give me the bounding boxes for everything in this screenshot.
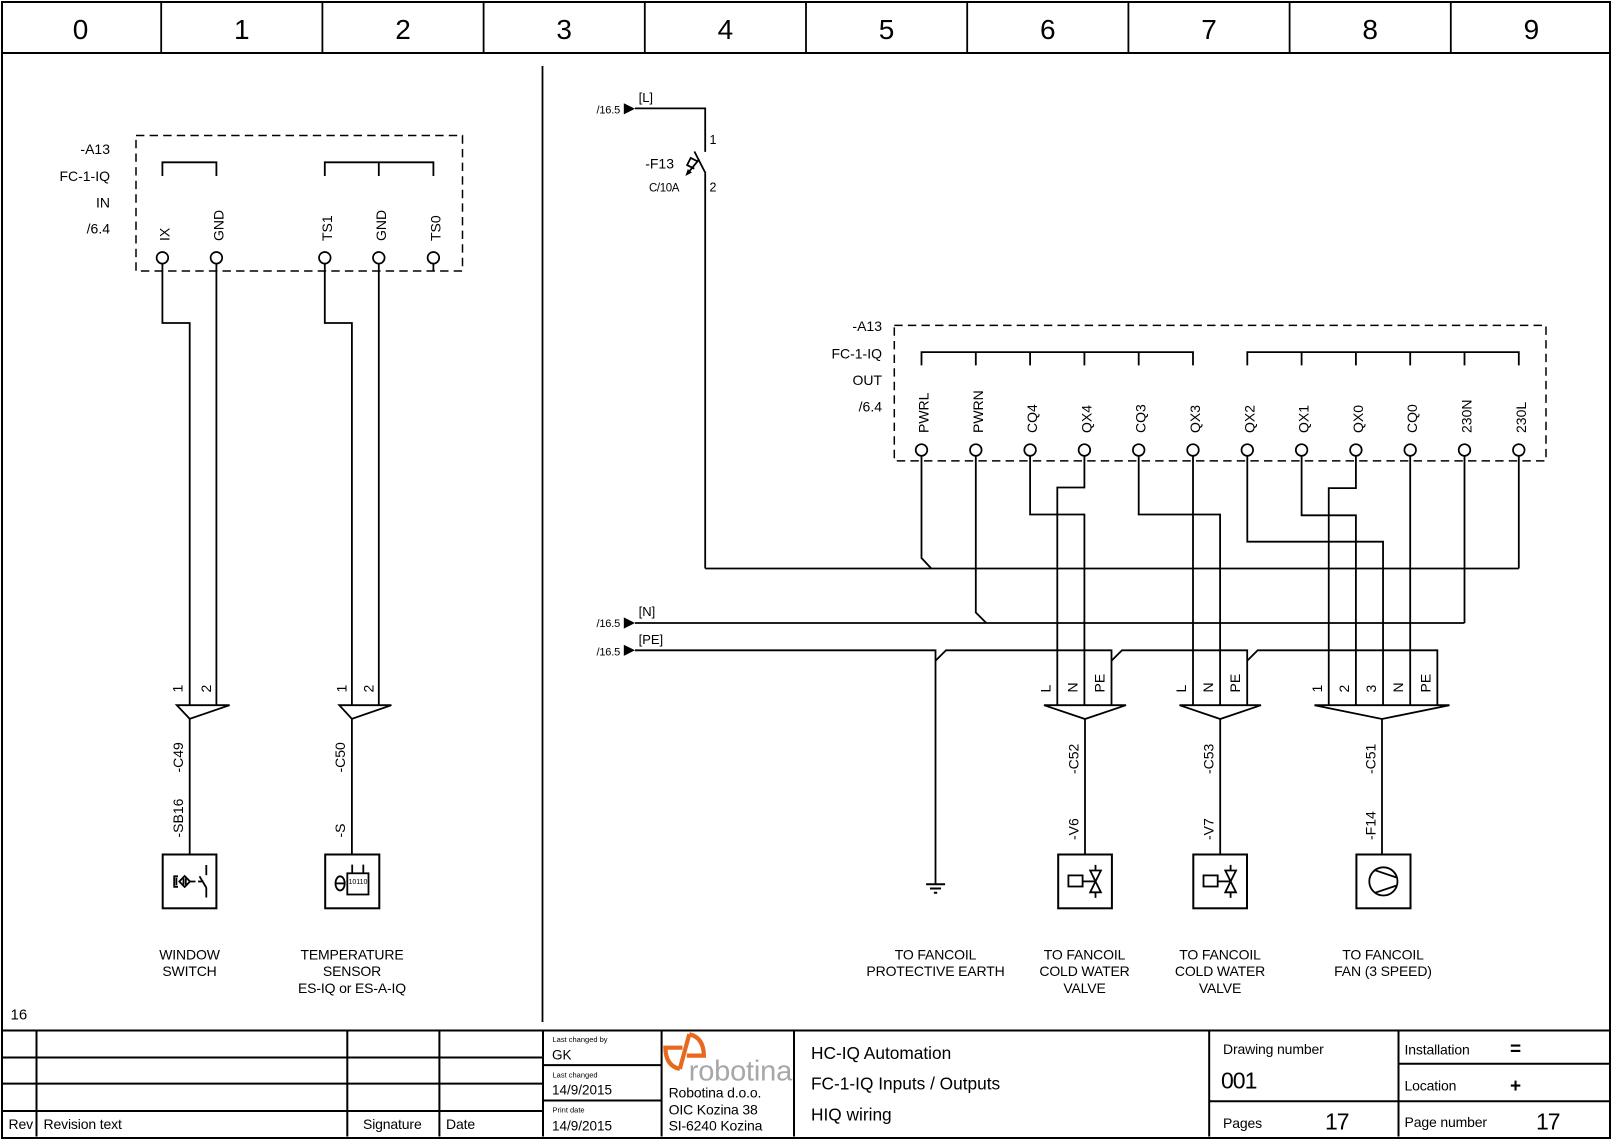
connector C53	[1173, 674, 1261, 774]
svg-text:1: 1	[333, 685, 349, 693]
wire GND to connector C50 pin 2	[378, 264, 380, 706]
terminal QX0	[1350, 405, 1366, 456]
svg-text:Robotina d.o.o.: Robotina d.o.o.	[669, 1085, 762, 1101]
wire QX0 to C51 pin 1	[1329, 456, 1356, 705]
caption cold water valve 2	[1175, 947, 1265, 996]
column ruler strip	[2, 2, 1610, 53]
caption protective earth	[866, 947, 1004, 980]
svg-text:PE: PE	[1417, 674, 1433, 693]
svg-text:TO FANCOIL: TO FANCOIL	[1179, 947, 1261, 963]
svg-text:230N: 230N	[1459, 400, 1475, 433]
svg-text:FC-1-IQ Inputs / Outputs: FC-1-IQ Inputs / Outputs	[811, 1074, 1001, 1094]
svg-text:[N]: [N]	[639, 604, 656, 619]
wire F13 pin 2 down to L net line	[704, 173, 706, 568]
caption fan	[1334, 947, 1432, 980]
svg-text:C/10A: C/10A	[649, 183, 680, 195]
svg-text:Pages: Pages	[1223, 1115, 1262, 1131]
svg-text:TO FANCOIL: TO FANCOIL	[1342, 947, 1424, 963]
svg-text:[PE]: [PE]	[639, 632, 664, 647]
svg-text:SWITCH: SWITCH	[162, 963, 216, 979]
wire IX to connector C49 pin 1	[162, 264, 189, 706]
svg-text:PWRL: PWRL	[916, 392, 932, 433]
svg-text:230L: 230L	[1513, 402, 1529, 433]
terminal QX3	[1187, 405, 1203, 456]
terminal CQ4	[1024, 404, 1040, 456]
svg-text:9: 9	[1524, 14, 1540, 45]
caption cold water valve 1	[1039, 947, 1129, 996]
connector C50	[332, 685, 391, 773]
wire CQ4 to C52 N	[1030, 456, 1084, 705]
net arrow [PE]	[597, 632, 664, 659]
terminal QX1	[1296, 405, 1312, 456]
svg-text:Date: Date	[446, 1116, 475, 1132]
connector C49	[170, 685, 230, 773]
svg-text:14/9/2015: 14/9/2015	[552, 1083, 612, 1098]
terminal GND (input 1)	[210, 210, 226, 264]
svg-text:CQ0: CQ0	[1404, 404, 1420, 433]
svg-text:WINDOW: WINDOW	[159, 947, 220, 963]
svg-text:QX2: QX2	[1241, 405, 1257, 433]
svg-text:VALVE: VALVE	[1063, 980, 1105, 996]
title text	[811, 1043, 1001, 1125]
svg-text:HIQ wiring: HIQ wiring	[811, 1105, 892, 1125]
net line PE with branch jogs	[635, 650, 936, 884]
svg-text:14/9/2015: 14/9/2015	[552, 1119, 612, 1134]
svg-text:CQ4: CQ4	[1024, 404, 1040, 433]
svg-text:/16.5: /16.5	[597, 105, 621, 117]
terminal GND (input 2)	[373, 210, 389, 264]
net arrow [N]	[597, 604, 656, 630]
svg-text:IN: IN	[96, 195, 110, 211]
svg-text:3: 3	[556, 14, 572, 45]
valve V7	[1193, 818, 1247, 908]
svg-text:17: 17	[1536, 1109, 1560, 1135]
svg-text:17: 17	[1325, 1109, 1349, 1135]
terminal CQ3	[1133, 404, 1149, 456]
terminal CQ0	[1404, 404, 1420, 456]
terminal TS1	[319, 215, 335, 263]
svg-text:N: N	[1064, 682, 1080, 692]
svg-text:PROTECTIVE EARTH: PROTECTIVE EARTH	[866, 963, 1004, 979]
svg-text:1: 1	[710, 133, 717, 147]
svg-text:TS0: TS0	[427, 215, 443, 241]
device block A13 IN (FC-1-IQ inputs)	[59, 136, 462, 272]
svg-text:-F14: -F14	[1363, 811, 1379, 840]
svg-text:Last changed: Last changed	[553, 1070, 598, 1079]
svg-text:1: 1	[1309, 685, 1325, 693]
bracket group TS1-GND-TS0	[325, 162, 434, 176]
terminal TS0	[427, 215, 443, 263]
svg-text:OUT: OUT	[852, 372, 882, 388]
svg-text:QX4: QX4	[1078, 405, 1094, 433]
svg-text:COLD WATER: COLD WATER	[1039, 963, 1129, 979]
svg-text:Location: Location	[1405, 1078, 1457, 1094]
terminal PWRL	[916, 392, 932, 455]
svg-text:Last changed by: Last changed by	[553, 1035, 608, 1044]
connector C52	[1037, 674, 1126, 774]
svg-text:OIC Kozina 38: OIC Kozina 38	[669, 1102, 758, 1118]
svg-text:0: 0	[73, 14, 89, 45]
svg-text:GND: GND	[373, 210, 389, 241]
window switch SB16	[163, 798, 217, 908]
svg-text:2: 2	[710, 181, 717, 195]
terminal QX4	[1078, 405, 1094, 456]
temperature sensor S	[325, 824, 379, 909]
wire QX4 to C52 L	[1057, 456, 1084, 705]
wire stub TS0	[432, 264, 434, 271]
robotina logo	[665, 1034, 793, 1133]
fan F14	[1356, 811, 1410, 908]
svg-text:PWRN: PWRN	[970, 390, 986, 433]
terminal QX2	[1241, 405, 1257, 456]
svg-text:Rev: Rev	[9, 1116, 34, 1132]
svg-text:Signature: Signature	[363, 1116, 422, 1132]
svg-text:GND: GND	[210, 210, 226, 241]
cable wire C53 to V7	[1219, 719, 1221, 855]
svg-text:Installation: Installation	[1405, 1042, 1470, 1058]
wire L net to breaker F13 pin 1	[635, 108, 705, 151]
svg-text:=: =	[1510, 1039, 1521, 1060]
installation / location / page number cells	[1405, 1039, 1560, 1135]
wire QX1 to C51 pin 2	[1302, 456, 1356, 705]
svg-text:FC-1-IQ: FC-1-IQ	[831, 346, 882, 362]
ground symbol (protective earth)	[926, 884, 945, 893]
svg-text:16: 16	[11, 1007, 28, 1024]
svg-text:COLD WATER: COLD WATER	[1175, 963, 1265, 979]
cable wire C49 to SB16	[189, 719, 191, 855]
svg-text:Drawing number: Drawing number	[1223, 1041, 1324, 1057]
svg-text:ES-IQ or ES-A-IQ: ES-IQ or ES-A-IQ	[298, 980, 406, 996]
svg-text:FC-1-IQ: FC-1-IQ	[59, 168, 110, 184]
svg-text:GK: GK	[552, 1048, 572, 1063]
title block	[2, 1031, 1610, 1137]
caption window switch	[159, 947, 220, 980]
svg-text:TEMPERATURE: TEMPERATURE	[300, 947, 403, 963]
svg-text:QX0: QX0	[1350, 405, 1366, 433]
svg-text:Print date: Print date	[553, 1106, 585, 1115]
svg-text:N: N	[1200, 682, 1216, 692]
svg-text:TO FANCOIL: TO FANCOIL	[895, 947, 977, 963]
bracket group PWRL..QX3	[922, 352, 1194, 365]
svg-text:5: 5	[879, 14, 895, 45]
svg-text:IX: IX	[156, 227, 172, 241]
svg-text:PE: PE	[1227, 674, 1243, 693]
connector C51	[1309, 674, 1450, 774]
svg-text:4: 4	[718, 14, 734, 45]
valve V6	[1058, 818, 1112, 908]
svg-text:/6.4: /6.4	[859, 399, 883, 415]
terminal PWRN	[970, 390, 986, 456]
svg-text:-V6: -V6	[1065, 818, 1081, 840]
svg-text:/16.5: /16.5	[597, 647, 621, 659]
circuit breaker F13	[645, 133, 716, 195]
caption temperature sensor	[298, 947, 406, 996]
terminal IX	[156, 227, 172, 263]
wire GND to connector C49 pin 2	[215, 264, 217, 706]
bracket group IX-GND	[162, 162, 216, 176]
svg-text:/6.4: /6.4	[87, 221, 111, 237]
svg-text:-C51: -C51	[1363, 743, 1379, 774]
wire QX3 to C53 L	[1192, 456, 1194, 705]
svg-text:2: 2	[198, 685, 214, 693]
svg-text:-V7: -V7	[1201, 818, 1217, 840]
svg-text:3: 3	[1363, 685, 1379, 693]
svg-text:-S: -S	[332, 824, 348, 838]
net line N	[635, 622, 1465, 624]
svg-text:+: +	[1510, 1076, 1521, 1097]
svg-text:6: 6	[1040, 14, 1056, 45]
svg-text:CQ3: CQ3	[1133, 404, 1149, 433]
svg-text:PE: PE	[1092, 674, 1108, 693]
svg-text:SENSOR: SENSOR	[323, 963, 381, 979]
wire CQ3 to C53 N	[1139, 456, 1220, 705]
svg-text:L: L	[1173, 685, 1189, 693]
terminal 230N	[1459, 400, 1475, 456]
svg-text:-C50: -C50	[332, 742, 348, 773]
wire PWRN drop with junction jog to N net	[976, 456, 987, 623]
svg-text:TS1: TS1	[319, 215, 335, 241]
cable wire C50 to S	[351, 719, 353, 855]
net arrow [L] from /16.5	[597, 90, 654, 117]
svg-text:TO FANCOIL: TO FANCOIL	[1044, 947, 1126, 963]
svg-text:1: 1	[170, 685, 186, 693]
wire TS1 to connector C50 pin 1	[325, 264, 352, 706]
wire CQ0 to C51 pin N	[1409, 456, 1411, 705]
svg-text:Revision text: Revision text	[44, 1116, 122, 1132]
wire QX2 to C51 pin 3	[1247, 456, 1383, 705]
drawing number cell	[1221, 1041, 1349, 1135]
wire 230N drop to N net	[1464, 456, 1466, 623]
svg-text:FAN (3 SPEED): FAN (3 SPEED)	[1334, 963, 1432, 979]
svg-text:001: 001	[1221, 1067, 1257, 1093]
svg-text:-SB16: -SB16	[170, 798, 186, 837]
svg-text:-C49: -C49	[170, 742, 186, 773]
svg-text:HC-IQ Automation: HC-IQ Automation	[811, 1043, 951, 1063]
svg-text:QX1: QX1	[1296, 405, 1312, 433]
svg-text:QX3: QX3	[1187, 405, 1203, 433]
svg-text:-C52: -C52	[1065, 743, 1081, 774]
net line L	[705, 568, 1519, 570]
svg-text:-C53: -C53	[1201, 743, 1217, 774]
terminal 230L	[1513, 402, 1529, 456]
svg-text:2: 2	[395, 14, 411, 45]
svg-text:-A13: -A13	[80, 141, 110, 157]
svg-text:robotina: robotina	[689, 1056, 793, 1088]
svg-text:/16.5: /16.5	[597, 618, 621, 630]
svg-text:-F13: -F13	[645, 156, 674, 172]
svg-text:N: N	[1390, 682, 1406, 692]
svg-text:-A13: -A13	[852, 318, 882, 334]
svg-text:Page number: Page number	[1405, 1114, 1488, 1130]
bracket group QX2..230L	[1247, 352, 1519, 365]
svg-text:2: 2	[1336, 685, 1352, 693]
cable wire C51 to F14	[1381, 719, 1383, 855]
wire PWRL drop with junction jog to L net	[922, 456, 932, 569]
device block A13 OUT (FC-1-IQ outputs)	[831, 318, 1546, 461]
center divider line	[542, 66, 544, 1022]
svg-text:VALVE: VALVE	[1199, 980, 1241, 996]
svg-text:2: 2	[360, 685, 376, 693]
svg-text:8: 8	[1362, 14, 1378, 45]
svg-text:SI-6240 Kozina: SI-6240 Kozina	[669, 1118, 763, 1134]
svg-text:10110: 10110	[349, 879, 368, 886]
svg-text:L: L	[1037, 685, 1053, 693]
svg-text:[L]: [L]	[639, 90, 653, 105]
wire 230L drop to L net	[1518, 456, 1520, 569]
svg-text:7: 7	[1201, 14, 1217, 45]
svg-text:1: 1	[234, 14, 250, 45]
cable wire C52 to V6	[1084, 719, 1086, 855]
